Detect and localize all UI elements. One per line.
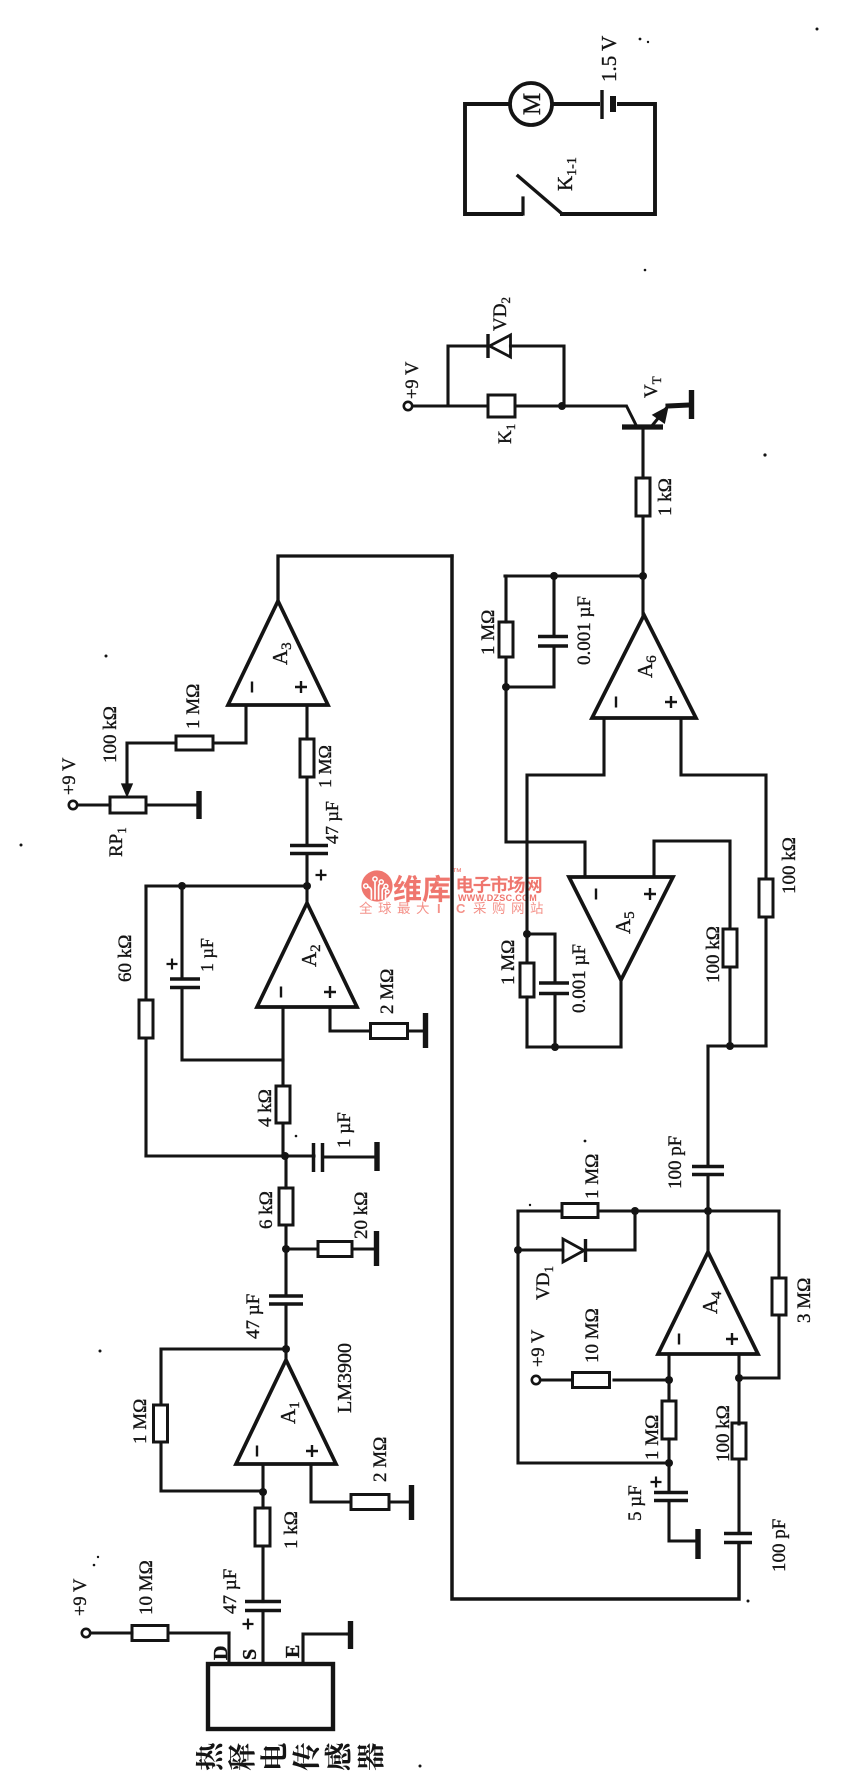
wire <box>161 1442 263 1491</box>
wire A6 apex <box>641 576 644 615</box>
wire <box>654 841 730 929</box>
wire <box>527 1045 621 1048</box>
wire <box>146 884 308 887</box>
wire <box>669 1501 698 1542</box>
potentiometer RP1 <box>100 706 146 857</box>
ground <box>146 791 199 819</box>
node A2 output <box>303 882 311 890</box>
wire A2 output <box>305 886 308 903</box>
capacitor 47 µF (source coupling) <box>220 1569 281 1630</box>
wire <box>641 430 644 478</box>
node A4 inv <box>665 1376 673 1384</box>
svg-text:1 MΩ: 1 MΩ <box>498 940 519 985</box>
resistor 100 kΩ (to A5 non-inv) <box>654 841 737 1046</box>
wire <box>452 556 739 1599</box>
relay coil K1 <box>488 395 518 444</box>
resistor 10 MΩ (+9V to A4 inv) <box>540 1308 669 1387</box>
wire A4 inv input <box>667 1354 670 1380</box>
wire <box>161 1349 286 1405</box>
svg-text:C: C <box>456 901 466 916</box>
resistor 1 kΩ (A1 input) <box>255 1508 302 1549</box>
resistor 60 kΩ (A2 feedback) <box>115 886 153 1156</box>
resistor 2 MΩ (A2 bias) <box>371 969 408 1039</box>
wire <box>518 1211 669 1463</box>
svg-text:+9 V: +9 V <box>529 1329 549 1367</box>
wire <box>552 576 555 637</box>
op-amp A5 <box>569 877 673 980</box>
wire <box>527 718 604 934</box>
wire <box>506 646 554 687</box>
capacitor 5 µF (electrolytic) <box>625 1463 688 1521</box>
wire RP1 to +9V <box>77 803 110 806</box>
resistor 2 MΩ (A1 bias) <box>351 1437 391 1510</box>
resistor 3 MΩ (A4 feedback) <box>739 1211 815 1378</box>
svg-text:6 kΩ: 6 kΩ <box>256 1191 277 1229</box>
node split <box>726 1042 734 1050</box>
capacitor 47 µF (A1 out coupling) <box>243 1294 303 1339</box>
svg-text:+9 V: +9 V <box>71 1578 91 1616</box>
wire <box>525 997 528 1047</box>
resistor 1 MΩ (A4 inv to node) <box>642 1380 676 1463</box>
svg-text:1.5 V: 1.5 V <box>597 36 621 82</box>
wire <box>127 743 176 783</box>
capacitor 100 pF (bottom) <box>724 1519 790 1572</box>
capacitor 100 pF (A4 out to A5/A6) <box>665 1136 724 1211</box>
wire <box>708 1044 766 1047</box>
wire <box>505 574 643 577</box>
svg-text:1 MΩ: 1 MΩ <box>183 684 204 729</box>
capacitor 1 µF (junction to ground) <box>314 1112 356 1172</box>
node A5 fb <box>523 930 531 938</box>
wire <box>448 346 488 406</box>
svg-text:100 kΩ: 100 kΩ <box>713 1405 734 1462</box>
wire <box>281 1123 284 1156</box>
node VD1 return <box>631 1207 639 1215</box>
svg-text:100 kΩ: 100 kΩ <box>703 926 724 983</box>
wire <box>764 917 767 1046</box>
op-amp A1 <box>236 1360 336 1464</box>
wire <box>586 1211 636 1250</box>
wire <box>213 705 246 743</box>
resistor 20 kΩ (to ground) <box>286 1192 372 1257</box>
resistor 1 MΩ (A3 series input) <box>300 705 335 846</box>
node A1 output <box>282 1345 290 1353</box>
diode VD2 (flyback) <box>448 297 564 406</box>
svg-text:1 µF: 1 µF <box>197 938 217 972</box>
ground <box>696 1529 699 1559</box>
node <box>550 572 558 580</box>
wire A2 non-inv to 2M <box>330 1007 371 1031</box>
svg-text:60 kΩ: 60 kΩ <box>115 935 136 982</box>
svg-text:K1: K1 <box>495 424 518 444</box>
ground <box>389 1485 412 1520</box>
wire <box>286 1247 318 1250</box>
node A1 inverting input <box>259 1488 267 1496</box>
terminal +9V relay <box>404 402 412 410</box>
wire <box>305 777 308 846</box>
svg-text:5 µF: 5 µF <box>625 1485 646 1521</box>
capacitor 1 µF (A2 feedback, electrolytic) <box>167 886 284 1060</box>
svg-text:1 MΩ: 1 MΩ <box>582 1154 603 1199</box>
svg-text:100 kΩ: 100 kΩ <box>100 706 121 763</box>
terminal +9V RP1 <box>69 801 77 809</box>
op-amp A2 <box>257 903 357 1007</box>
wire <box>527 934 555 983</box>
resistor 4 kΩ (A2 inv input) <box>255 1007 290 1156</box>
wire <box>504 657 507 687</box>
svg-text:3 MΩ: 3 MΩ <box>794 1278 815 1323</box>
wire cap to 1k <box>261 1546 264 1602</box>
svg-text:1 kΩ: 1 kΩ <box>281 1511 302 1549</box>
wire <box>667 1380 670 1401</box>
wire <box>180 886 183 979</box>
relay contact K1-1 and motor loop <box>465 104 655 214</box>
wire cap to 6k <box>284 1225 287 1296</box>
wire <box>777 1211 780 1278</box>
resistor 1 MΩ (on bus) <box>562 1154 603 1218</box>
node A6 output <box>639 572 647 580</box>
wire <box>506 687 585 877</box>
wire <box>641 516 644 576</box>
svg-text:1 MΩ: 1 MΩ <box>130 1399 151 1444</box>
wire A1 output <box>284 1304 287 1360</box>
potentiometer RP1 wiper arrow <box>123 782 132 795</box>
wire <box>706 1175 709 1211</box>
wire <box>540 1378 572 1381</box>
ground <box>346 1621 351 1649</box>
wire <box>144 886 147 1000</box>
svg-text:47 µF: 47 µF <box>220 1569 241 1614</box>
wire <box>182 988 283 1061</box>
wire S pin <box>261 1611 264 1664</box>
ground <box>323 1142 378 1171</box>
svg-text:4 kΩ: 4 kΩ <box>255 1089 276 1127</box>
wire cap to split <box>706 1046 709 1167</box>
svg-text:10 MΩ: 10 MΩ <box>582 1308 603 1363</box>
svg-text:E: E <box>282 1645 304 1658</box>
ground <box>407 1013 426 1048</box>
svg-text:+9 V: +9 V <box>60 757 80 795</box>
resistor 10 MΩ (drain load) <box>132 1560 168 1640</box>
resistor 1 MΩ (A1 feedback) <box>130 1349 286 1491</box>
wire <box>412 404 562 407</box>
svg-text:100 kΩ: 100 kΩ <box>779 837 800 894</box>
wire D pin <box>227 1633 230 1664</box>
node <box>551 1043 559 1051</box>
ground <box>352 1231 377 1266</box>
wire <box>525 934 528 963</box>
svg-text:+9 V: +9 V <box>403 361 423 399</box>
capacitor 47 µF (A2 to A3 coupling) <box>290 801 342 886</box>
wire <box>281 1007 284 1086</box>
svg-text:47 µF: 47 µF <box>243 1294 264 1339</box>
svg-text:1 kΩ: 1 kΩ <box>655 478 676 516</box>
wire <box>668 405 689 406</box>
wire <box>728 967 731 1046</box>
wire <box>521 198 524 214</box>
watermark brand 维库 <box>394 867 462 902</box>
wire <box>504 576 507 622</box>
resistor 100 kΩ (to A6 non-inv) <box>681 718 800 1046</box>
wire <box>518 1248 563 1251</box>
wire <box>667 1439 670 1463</box>
node 20k tap <box>282 1245 290 1253</box>
svg-text:VD2: VD2 <box>490 297 513 331</box>
op-amp A4 <box>658 1252 758 1354</box>
svg-text:1 MΩ: 1 MΩ <box>478 610 499 655</box>
battery 1.5 V <box>597 36 621 119</box>
diode VD1 <box>518 1211 635 1300</box>
svg-text:0.001 µF: 0.001 µF <box>574 596 595 665</box>
wire D to 10M <box>168 1631 229 1634</box>
wire <box>681 718 766 879</box>
terminal +9V sensor <box>82 1629 90 1637</box>
svg-text:100 pF: 100 pF <box>769 1519 790 1572</box>
resistor 1 kΩ (A6 out to VT base) <box>636 430 676 576</box>
svg-text:100 pF: 100 pF <box>665 1136 686 1189</box>
wire <box>553 994 556 1048</box>
svg-text:VT: VT <box>641 376 664 398</box>
transistor VT <box>622 376 668 427</box>
svg-text:VD1: VD1 <box>533 1266 556 1300</box>
wire blade <box>518 176 560 212</box>
watermark slogan 全球最大IC采购网站 <box>359 901 543 916</box>
pyroelectric sensor 热释电传感器 <box>196 1664 384 1770</box>
svg-text:1 MΩ: 1 MΩ <box>315 745 335 788</box>
motor M <box>510 83 552 125</box>
resistor 1 MΩ (A5 feedback) <box>498 934 534 1047</box>
wire to A4 + <box>737 1354 740 1424</box>
wire junction line <box>146 1154 314 1157</box>
wire <box>305 854 308 886</box>
svg-text:LM3900: LM3900 <box>334 1343 356 1413</box>
node A4 output <box>704 1207 712 1215</box>
svg-text:2 MΩ: 2 MΩ <box>370 1437 391 1482</box>
wire <box>305 705 308 739</box>
watermark logo circle <box>361 870 392 901</box>
watermark 电子市场网 <box>458 876 542 893</box>
svg-text:WWW.DZSC.COM: WWW.DZSC.COM <box>458 893 537 903</box>
op-amp A6 <box>592 615 696 718</box>
wire <box>144 1038 147 1156</box>
svg-text:RP1: RP1 <box>106 827 129 857</box>
node 1uF tap <box>178 882 186 890</box>
wire <box>518 1209 779 1212</box>
node K1/VD2 <box>558 402 566 410</box>
svg-text:S: S <box>239 1649 261 1660</box>
op-amp A3 <box>228 601 328 705</box>
wire <box>737 1458 740 1534</box>
node 5uF tap <box>665 1459 673 1467</box>
svg-text:1 µF: 1 µF <box>334 1112 355 1148</box>
wire <box>564 404 626 407</box>
svg-text:2 MΩ: 2 MΩ <box>377 969 398 1014</box>
wire A4 output <box>706 1211 709 1252</box>
wire <box>739 1315 779 1378</box>
node VD1 anode branch <box>514 1246 522 1254</box>
wire 1k to A1 inv input <box>261 1464 264 1508</box>
wire A1 non-inv to 2M <box>311 1464 351 1502</box>
resistor 6 kΩ <box>256 1188 293 1229</box>
resistor 1 MΩ (A3 inv input) <box>127 684 246 783</box>
capacitor 0.001 µF (A6 feedback) <box>506 576 595 687</box>
wire <box>511 346 565 406</box>
resistor 1 MΩ (A6 feedback) <box>478 576 513 687</box>
wire 6k to junction <box>284 1156 287 1188</box>
node A6 fb <box>502 683 510 691</box>
svg-text:20 kΩ: 20 kΩ <box>351 1192 372 1239</box>
svg-text:10 MΩ: 10 MΩ <box>136 1560 157 1615</box>
svg-text:I: I <box>437 901 441 916</box>
wire <box>667 1463 670 1492</box>
svg-text:0.001 µF: 0.001 µF <box>569 944 590 1013</box>
wire <box>614 1378 669 1381</box>
svg-text:K1-1: K1-1 <box>553 157 580 191</box>
node junction <box>281 1152 289 1160</box>
svg-text:M: M <box>519 93 546 115</box>
node A4 non-inv <box>735 1374 743 1382</box>
ground <box>689 390 692 419</box>
capacitor 0.001 µF (A5 feedback) <box>527 934 590 1047</box>
wire 10M to +9V <box>90 1631 132 1634</box>
svg-text:47 µF: 47 µF <box>322 801 342 844</box>
resistor 100 kΩ (A4 non-inv input) <box>713 1405 746 1533</box>
wire A3 output <box>278 556 452 601</box>
wire A5 apex <box>619 980 622 1047</box>
svg-text:1 MΩ: 1 MΩ <box>642 1415 663 1460</box>
wire E pin <box>303 1634 346 1664</box>
terminal +9V A4 <box>532 1376 540 1384</box>
